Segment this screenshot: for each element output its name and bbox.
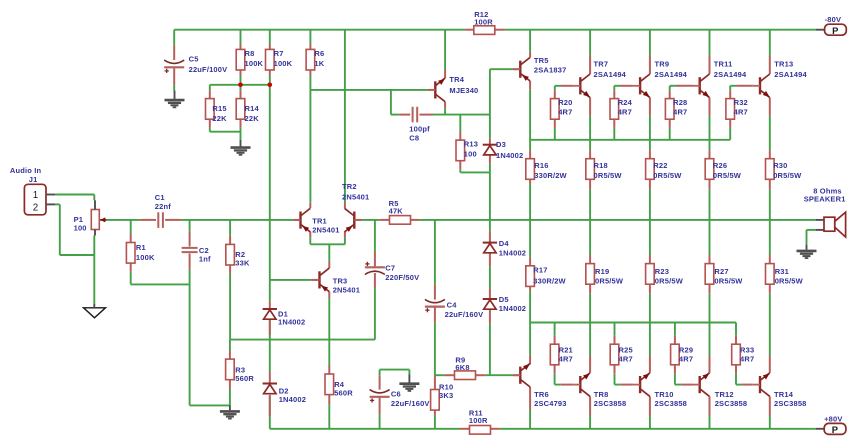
svg-text:D5: D5 xyxy=(499,295,509,304)
capacitor C1 xyxy=(157,212,159,228)
ground xyxy=(84,308,106,318)
resistor R20 xyxy=(551,99,560,120)
svg-text:22uF/160V: 22uF/160V xyxy=(445,310,484,319)
svg-text:R8: R8 xyxy=(245,49,255,58)
svg-text:TR10: TR10 xyxy=(655,390,674,399)
wire TR2 emitter stub xyxy=(344,237,346,244)
svg-text:C7: C7 xyxy=(385,264,395,273)
resistor R1 xyxy=(126,243,135,264)
svg-text:R14: R14 xyxy=(245,104,260,113)
transistor TR8 2SC3858 xyxy=(579,376,581,393)
svg-text:100K: 100K xyxy=(274,59,293,68)
svg-text:2N5401: 2N5401 xyxy=(312,225,339,234)
resistor R13 xyxy=(456,140,465,161)
svg-text:6K8: 6K8 xyxy=(455,363,469,372)
resistor R2 xyxy=(226,244,235,265)
svg-text:C1: C1 xyxy=(155,193,165,202)
wire TR5 base xyxy=(490,68,513,70)
wire R3 bottom xyxy=(190,404,230,406)
wire output column x=649.9 xyxy=(649,30,651,56)
diode D3 xyxy=(483,144,497,146)
svg-text:100pf: 100pf xyxy=(409,124,430,133)
svg-text:1N4002: 1N4002 xyxy=(496,151,523,160)
junction xyxy=(238,83,243,88)
svg-text:1nf: 1nf xyxy=(199,254,211,263)
wire top base elbows xyxy=(555,85,561,87)
svg-text:1N4002: 1N4002 xyxy=(499,304,526,313)
svg-text:R28: R28 xyxy=(673,98,687,107)
wire bottom rail +80V xyxy=(270,428,460,430)
svg-text:4R7: 4R7 xyxy=(618,107,632,116)
resistor R19 xyxy=(586,264,595,285)
svg-text:1N4002: 1N4002 xyxy=(499,249,526,258)
svg-text:R24: R24 xyxy=(618,98,633,107)
transistor TR10 2SC3858 xyxy=(639,376,641,393)
wire C8-TR4 base link xyxy=(390,90,392,115)
capacitor C6 xyxy=(370,396,390,398)
svg-text:22K: 22K xyxy=(245,114,260,123)
wire C4-R10 column xyxy=(434,220,436,285)
svg-text:R22: R22 xyxy=(653,161,667,170)
resistor R29 xyxy=(671,344,680,365)
svg-text:330R/2W: 330R/2W xyxy=(533,276,566,285)
svg-text:4R7: 4R7 xyxy=(679,355,693,364)
svg-text:0R5/5W: 0R5/5W xyxy=(775,277,804,286)
svg-text:TR12: TR12 xyxy=(715,390,734,399)
svg-text:2SA1494: 2SA1494 xyxy=(594,70,627,79)
resistor R18 xyxy=(586,159,595,180)
wire C8 row xyxy=(391,114,399,116)
wire R9-TR6 row xyxy=(435,374,445,376)
resistor R28 xyxy=(665,99,674,120)
svg-text:TR13: TR13 xyxy=(774,59,793,68)
resistor R14 xyxy=(236,99,245,120)
wire R2-R3 column xyxy=(229,220,231,236)
svg-text:22uF/100V: 22uF/100V xyxy=(189,65,228,74)
resistor R11 xyxy=(470,426,491,435)
resistor R6 xyxy=(306,49,315,70)
svg-text:R21: R21 xyxy=(559,345,573,354)
wire R13-D3 row xyxy=(460,171,490,173)
svg-text:2N5401: 2N5401 xyxy=(342,193,369,202)
resistor R5 xyxy=(390,216,411,225)
svg-text:TR6: TR6 xyxy=(534,390,549,399)
svg-text:C6: C6 xyxy=(391,389,401,398)
svg-text:R31: R31 xyxy=(775,267,789,276)
svg-text:R32: R32 xyxy=(734,98,748,107)
transistor TR6 2SC4793 xyxy=(519,367,521,384)
svg-text:1N4002: 1N4002 xyxy=(279,395,306,404)
svg-text:C8: C8 xyxy=(409,133,419,142)
svg-text:100: 100 xyxy=(74,223,87,232)
wire top 4R7 columns xyxy=(554,86,556,91)
wire TR1-TR2 emitter rail xyxy=(310,243,345,245)
svg-text:R7: R7 xyxy=(274,49,284,58)
resistor R21 xyxy=(550,344,559,365)
svg-text:R6: R6 xyxy=(314,49,324,58)
transistor TR14 2SC3858 xyxy=(759,376,761,393)
svg-text:Audio In: Audio In xyxy=(10,166,42,175)
wire D1-D2 column xyxy=(269,85,271,301)
svg-text:100: 100 xyxy=(464,150,477,159)
diode D4 xyxy=(483,242,497,244)
svg-text:R19: R19 xyxy=(595,267,609,276)
wire TR3 column xyxy=(328,244,330,262)
svg-text:R16: R16 xyxy=(534,161,548,170)
svg-text:22uF/160V: 22uF/160V xyxy=(391,399,430,408)
svg-text:560R: 560R xyxy=(334,388,353,397)
wire J1 pin1 xyxy=(55,194,94,196)
transistor TR13 2SA1494 xyxy=(759,77,761,94)
wire R15-R14 bottom xyxy=(210,131,241,133)
wire speaker ground xyxy=(806,230,808,245)
wire output column x=769.8 xyxy=(769,30,771,56)
wire signal row / output rail xyxy=(106,219,140,221)
wire R15-R8-R14-R7 row xyxy=(210,84,270,86)
svg-text:TR7: TR7 xyxy=(594,59,609,68)
svg-text:TR4: TR4 xyxy=(449,75,464,84)
svg-text:TR14: TR14 xyxy=(774,390,794,399)
svg-text:2: 2 xyxy=(33,203,39,214)
transistor TR12 2SC3858 xyxy=(699,376,701,393)
earth ground xyxy=(165,99,185,102)
resistor R17 xyxy=(526,266,535,287)
wire TR4 base xyxy=(310,89,428,91)
svg-text:4R7: 4R7 xyxy=(734,107,748,116)
wire R13 column xyxy=(459,115,461,132)
svg-text:0R5/5W: 0R5/5W xyxy=(594,171,623,180)
svg-text:R17: R17 xyxy=(533,266,547,275)
resistor R31 xyxy=(766,264,775,285)
svg-text:D3: D3 xyxy=(496,140,506,149)
svg-text:+80V: +80V xyxy=(824,415,842,424)
resistor R24 xyxy=(610,99,619,120)
resistor R8 xyxy=(236,49,245,70)
svg-text:TR5: TR5 xyxy=(534,56,549,65)
svg-text:C4: C4 xyxy=(447,301,458,310)
svg-text:4R7: 4R7 xyxy=(740,355,754,364)
svg-text:560R: 560R xyxy=(235,374,254,383)
svg-text:2SC4793: 2SC4793 xyxy=(534,399,567,408)
capacitor C2 xyxy=(182,247,198,249)
svg-text:2N5401: 2N5401 xyxy=(333,286,360,295)
wire R7 column xyxy=(269,30,271,44)
svg-text:TR8: TR8 xyxy=(594,390,609,399)
earth ground xyxy=(231,146,251,149)
svg-text:0R5/5W: 0R5/5W xyxy=(773,171,802,180)
svg-text:R30: R30 xyxy=(773,161,787,170)
transistor TR11 2SA1494 xyxy=(699,77,701,94)
wire R8 column xyxy=(240,30,242,44)
wire R15 column xyxy=(209,85,211,91)
svg-text:MJE340: MJE340 xyxy=(449,86,478,95)
svg-text:R33: R33 xyxy=(740,345,754,354)
potentiometer P1 xyxy=(91,210,99,230)
svg-text:P: P xyxy=(832,424,838,435)
wire output column x=709.5 xyxy=(709,30,711,56)
wire C5 column xyxy=(173,30,175,46)
transistor TR4 MJE340 xyxy=(434,81,436,98)
svg-text:2SC3858: 2SC3858 xyxy=(655,399,688,408)
svg-text:4R7: 4R7 xyxy=(559,355,573,364)
wire D3-D4-D5 column xyxy=(489,69,491,138)
svg-text:2SC3858: 2SC3858 xyxy=(774,399,807,408)
svg-text:4R7: 4R7 xyxy=(558,107,572,116)
wire top bias rail xyxy=(530,139,730,141)
svg-text:D4: D4 xyxy=(499,239,510,248)
svg-text:4R7: 4R7 xyxy=(673,107,687,116)
capacitor C8 xyxy=(412,107,414,123)
resistor R30 xyxy=(766,159,775,180)
svg-text:P: P xyxy=(832,25,838,36)
svg-text:100R: 100R xyxy=(469,416,488,425)
svg-text:TR9: TR9 xyxy=(655,59,670,68)
svg-text:C5: C5 xyxy=(189,54,199,63)
svg-text:0R5/5W: 0R5/5W xyxy=(595,277,624,286)
wire C6 column xyxy=(379,370,381,376)
wire TR3 base xyxy=(270,279,312,281)
svg-text:TR3: TR3 xyxy=(333,276,348,285)
wire output column x=590.1 xyxy=(589,30,591,56)
diode D1 xyxy=(263,308,277,310)
svg-text:SPEAKER1: SPEAKER1 xyxy=(804,194,846,203)
svg-text:100K: 100K xyxy=(245,59,264,68)
svg-text:2SC3858: 2SC3858 xyxy=(715,399,748,408)
svg-text:R29: R29 xyxy=(679,345,693,354)
svg-text:R18: R18 xyxy=(594,161,608,170)
resistor R9 xyxy=(455,371,476,380)
svg-text:0R5/5W: 0R5/5W xyxy=(655,277,684,286)
svg-text:2SA1494: 2SA1494 xyxy=(714,70,747,79)
svg-text:0R5/5W: 0R5/5W xyxy=(653,171,682,180)
capacitor C5 xyxy=(164,66,184,68)
svg-text:R27: R27 xyxy=(714,267,728,276)
wire bottom drive rail xyxy=(530,322,736,324)
svg-text:2SA1494: 2SA1494 xyxy=(655,70,688,79)
resistor R3 xyxy=(226,359,235,380)
svg-text:100R: 100R xyxy=(474,17,493,26)
wire R6-TR1 column xyxy=(309,30,311,44)
svg-text:R23: R23 xyxy=(655,267,669,276)
svg-text:TR11: TR11 xyxy=(714,59,733,68)
resistor R12 xyxy=(474,26,495,35)
wire top rail -80V xyxy=(174,29,465,31)
svg-text:R25: R25 xyxy=(619,345,633,354)
svg-text:220F/50V: 220F/50V xyxy=(385,273,419,282)
svg-text:2SC3858: 2SC3858 xyxy=(594,399,627,408)
svg-text:22nf: 22nf xyxy=(155,202,171,211)
svg-text:22K: 22K xyxy=(212,114,227,123)
pins xyxy=(173,45,175,60)
capacitor C7 xyxy=(365,266,385,268)
wire C6 top xyxy=(380,369,410,371)
wire R14 column xyxy=(240,127,242,140)
wire J1 pin2 xyxy=(55,203,60,205)
svg-text:R20: R20 xyxy=(558,98,572,107)
resistor R23 xyxy=(646,264,655,285)
svg-text:R1: R1 xyxy=(136,243,146,252)
svg-text:3K3: 3K3 xyxy=(439,391,453,400)
resistor R4 xyxy=(325,374,334,395)
svg-text:R13: R13 xyxy=(464,140,478,149)
svg-text:J1: J1 xyxy=(29,175,38,184)
svg-text:100K: 100K xyxy=(136,253,155,262)
resistor R26 xyxy=(705,159,714,180)
wire R4 column xyxy=(328,340,330,365)
svg-text:R26: R26 xyxy=(713,161,727,170)
resistor R15 xyxy=(206,99,215,120)
wire bottom 4R7 columns xyxy=(554,323,556,336)
wire TR5-R16-R17-TR6 column xyxy=(529,30,531,52)
wire C7 column xyxy=(374,220,376,252)
svg-text:TR2: TR2 xyxy=(342,182,357,191)
wire C2 column xyxy=(189,220,191,231)
resistor R22 xyxy=(646,159,655,180)
resistor R25 xyxy=(610,344,619,365)
svg-text:330R/2W: 330R/2W xyxy=(534,171,567,180)
diode D2 xyxy=(263,383,277,385)
capacitor C4 xyxy=(425,306,445,308)
wire R1 column xyxy=(130,220,132,234)
svg-text:0R5/5W: 0R5/5W xyxy=(714,277,743,286)
earth ground xyxy=(220,410,240,413)
transistor TR5 2SA1837 xyxy=(519,61,521,78)
svg-text:2SA1494: 2SA1494 xyxy=(774,70,807,79)
svg-text:-80V: -80V xyxy=(825,15,842,24)
transistor TR2 2N5401 xyxy=(353,212,355,229)
earth ground xyxy=(399,382,419,385)
resistor R27 xyxy=(705,264,714,285)
svg-text:33K: 33K xyxy=(235,259,250,268)
svg-text:1K: 1K xyxy=(314,59,324,68)
svg-text:R15: R15 xyxy=(212,104,226,113)
resistor R7 xyxy=(266,49,275,70)
resistor R10 xyxy=(431,390,440,411)
svg-text:0R5/5W: 0R5/5W xyxy=(713,171,742,180)
wire TR2 collector column xyxy=(344,30,346,203)
svg-text:TR1: TR1 xyxy=(312,217,327,226)
resistor R32 xyxy=(726,99,735,120)
svg-text:1: 1 xyxy=(33,190,39,201)
transistor TR3 2N5401 xyxy=(318,271,320,288)
svg-text:4R7: 4R7 xyxy=(619,355,633,364)
wire bottom base elbows xyxy=(555,384,561,386)
svg-text:2SA1837: 2SA1837 xyxy=(534,66,567,75)
diode D5 xyxy=(483,298,497,300)
svg-text:1N4002: 1N4002 xyxy=(278,318,305,327)
wire TR4 column xyxy=(444,30,446,70)
transistor TR9 2SA1494 xyxy=(639,77,641,94)
svg-text:47K: 47K xyxy=(389,206,404,215)
wire TR1 emitter stub xyxy=(309,237,311,244)
wire P1 ground xyxy=(93,236,95,305)
wire R1-C2 bottom xyxy=(131,283,190,285)
wire C6 earth stub xyxy=(408,370,410,375)
resistor R33 xyxy=(732,344,741,365)
transistor TR7 2SA1494 xyxy=(579,77,581,94)
wire mid bus xyxy=(230,339,375,341)
resistor R16 xyxy=(526,159,535,180)
earth ground xyxy=(797,250,817,253)
transistor TR1 2N5401 xyxy=(299,212,301,229)
